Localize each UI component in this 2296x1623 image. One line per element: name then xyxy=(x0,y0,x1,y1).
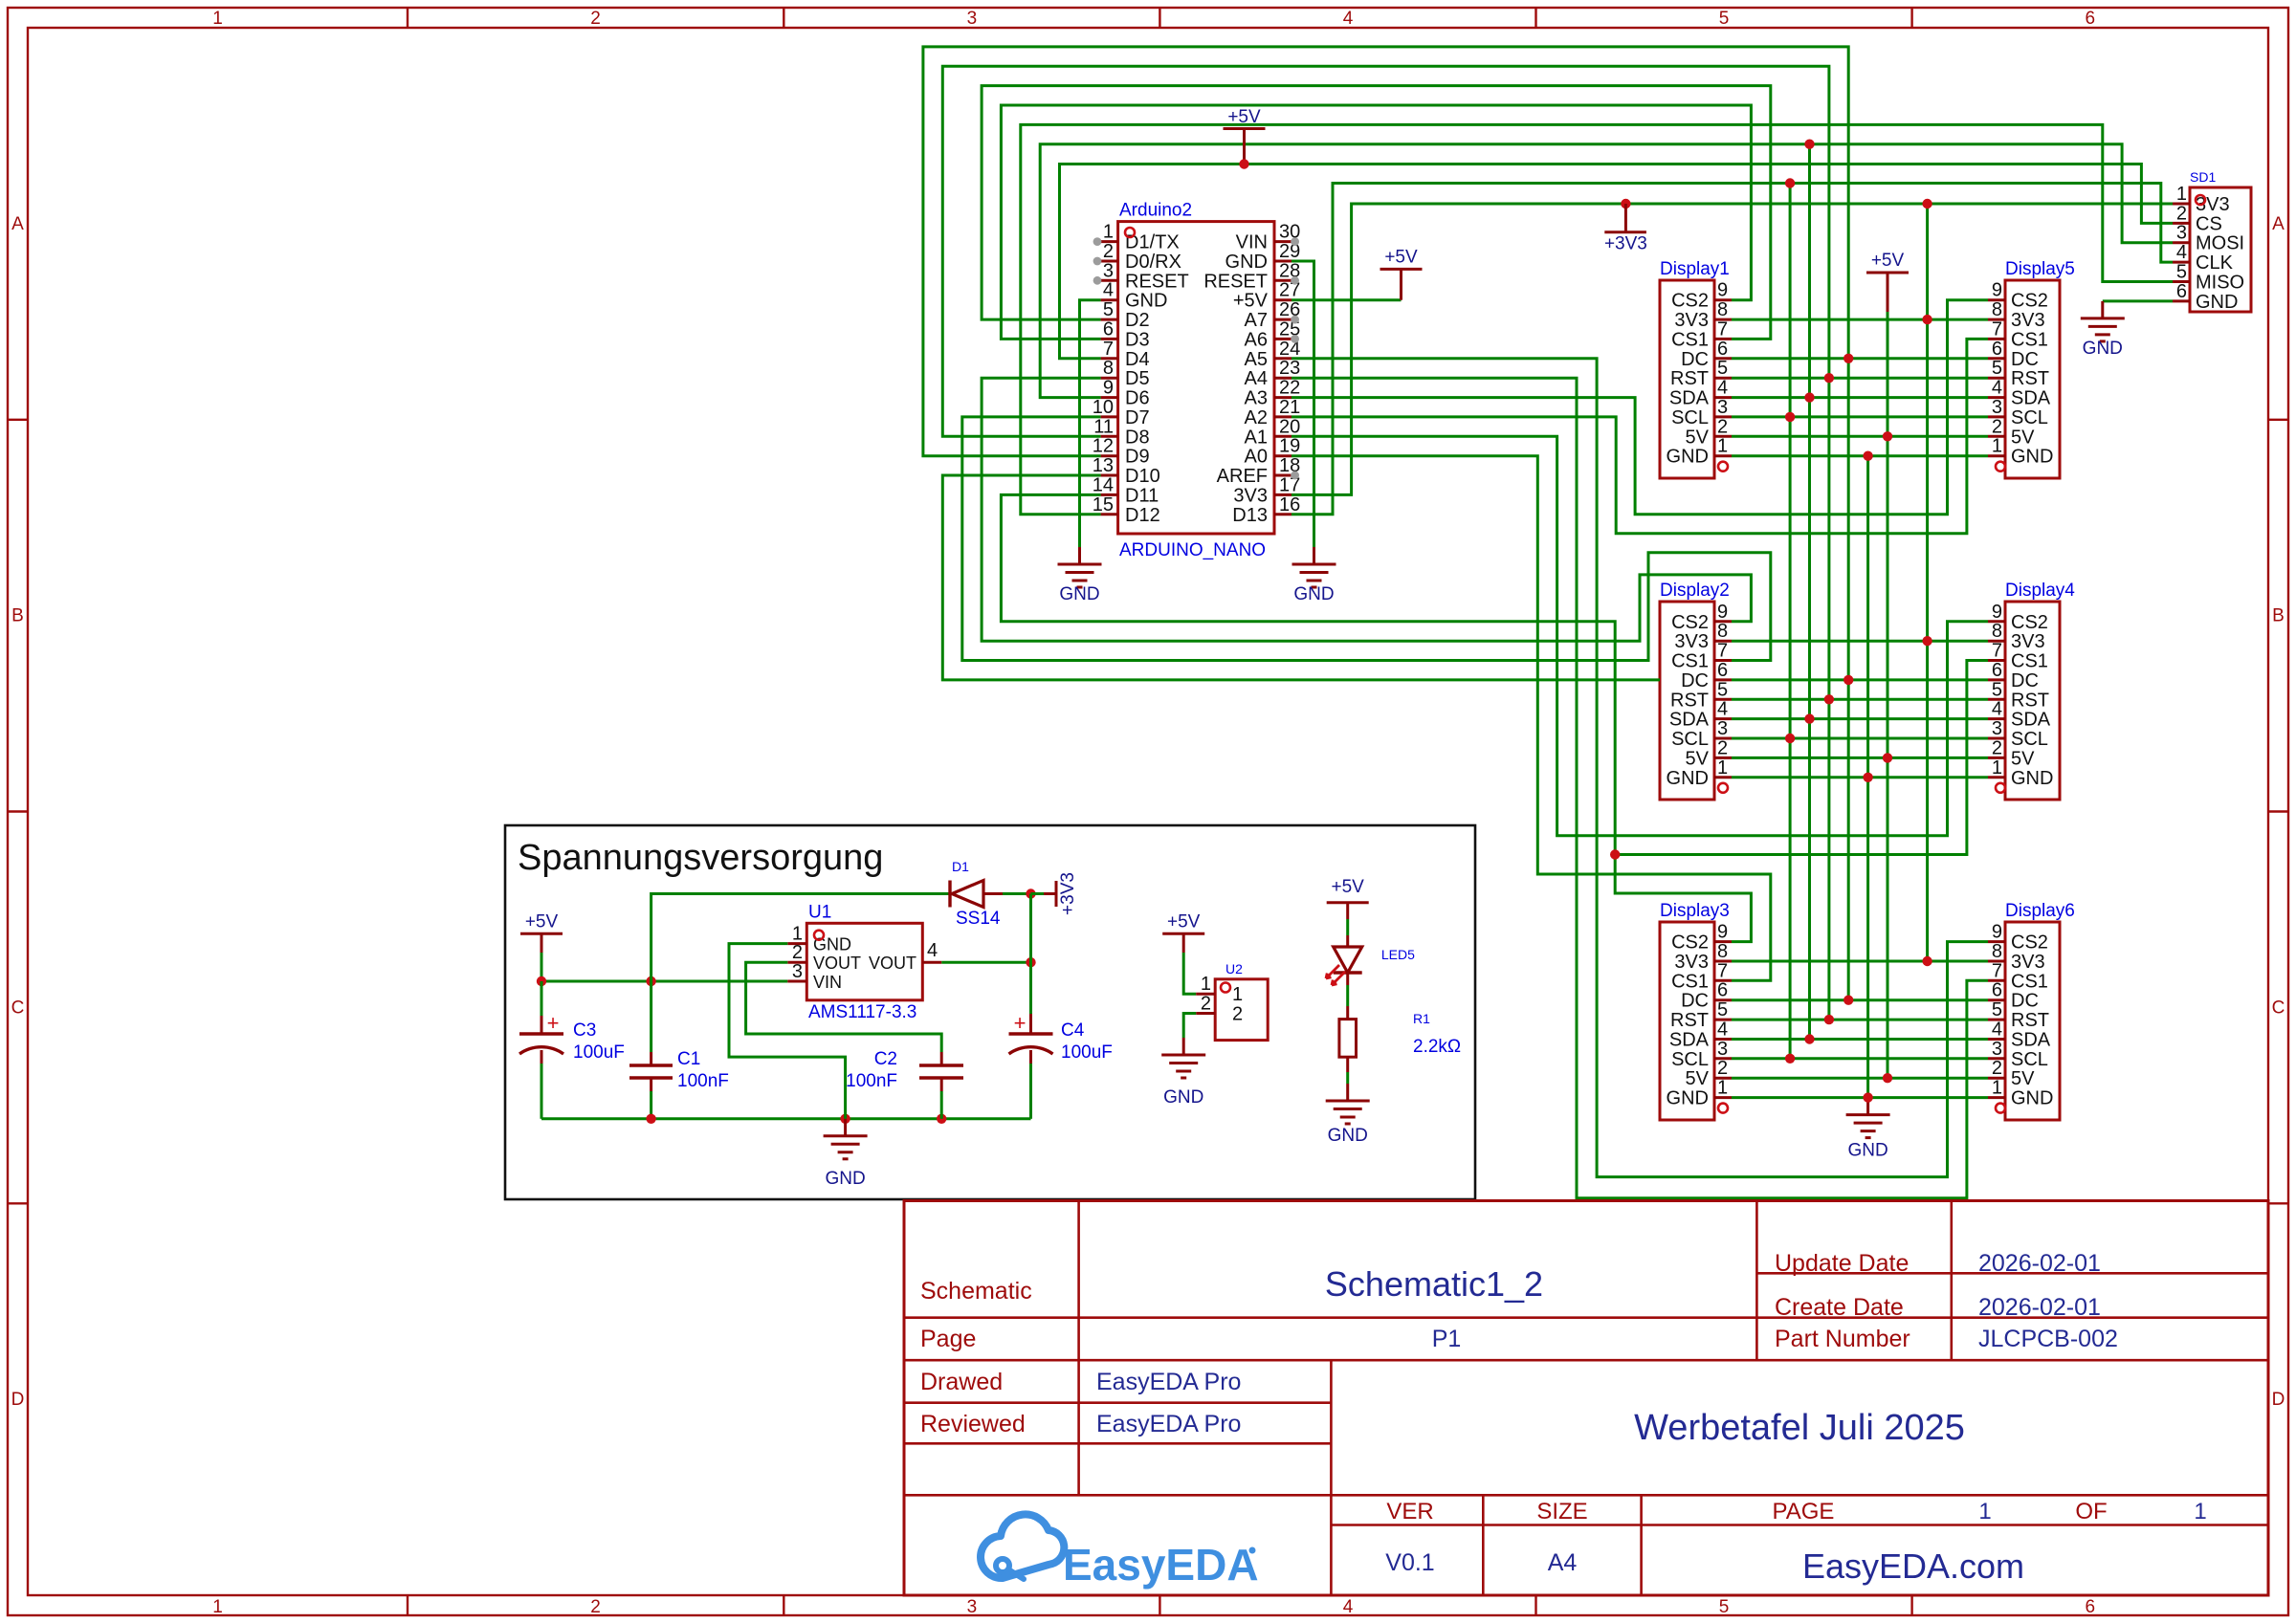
svg-text:Schematic: Schematic xyxy=(920,1278,1032,1305)
svg-text:Display3: Display3 xyxy=(1660,901,1730,921)
junction SDA bus tap xyxy=(1804,140,1814,149)
connector Display4 xyxy=(1988,581,2075,800)
svg-text:6: 6 xyxy=(1717,980,1728,1001)
svg-text:DC: DC xyxy=(1681,670,1709,691)
wire GND pin4 xyxy=(1080,300,1101,547)
svg-text:SS14: SS14 xyxy=(956,909,1001,929)
svg-text:V0.1: V0.1 xyxy=(1385,1549,1434,1576)
unconnected marker Display3 xyxy=(1718,1104,1728,1113)
junction 3V3 bus xyxy=(1922,956,1932,966)
svg-text:GND: GND xyxy=(1328,1126,1368,1146)
svg-text:C: C xyxy=(11,998,25,1018)
svg-text:+5V: +5V xyxy=(1233,291,1269,312)
svg-text:D11: D11 xyxy=(1125,485,1159,506)
unconnected marker Display6 xyxy=(1996,1104,2005,1113)
svg-text:RST: RST xyxy=(1670,1010,1709,1031)
junction GND bus xyxy=(1863,1092,1872,1102)
wire D3 net (L4 to Display1 CS2) xyxy=(1001,105,1751,339)
svg-text:D7: D7 xyxy=(1125,407,1150,428)
svg-text:VIN: VIN xyxy=(1236,232,1268,253)
svg-text:6: 6 xyxy=(2086,9,2096,29)
svg-text:VOUT: VOUT xyxy=(869,954,916,973)
wire SCL bus row Display1-Display5 xyxy=(1732,415,1988,418)
svg-text:7: 7 xyxy=(1717,641,1728,662)
svg-text:5V: 5V xyxy=(1686,1068,1710,1089)
svg-text:U1: U1 xyxy=(808,902,831,922)
svg-text:D10: D10 xyxy=(1125,466,1160,487)
svg-text:6: 6 xyxy=(2176,281,2187,302)
svg-text:4: 4 xyxy=(1343,9,1354,29)
svg-text:CS2: CS2 xyxy=(2011,612,2048,633)
svg-text:+5V: +5V xyxy=(525,911,559,932)
svg-text:8: 8 xyxy=(1717,299,1728,320)
svg-text:3V3: 3V3 xyxy=(1674,952,1709,973)
wire GND bus row Display3-Display6 xyxy=(1732,1096,1988,1099)
svg-text:1: 1 xyxy=(1103,222,1114,243)
wire 5V bus vertical xyxy=(1887,312,1889,1078)
svg-text:RESET: RESET xyxy=(1125,271,1189,292)
svg-text:GND: GND xyxy=(1847,1141,1888,1161)
svg-text:1: 1 xyxy=(212,9,223,29)
wire D7 net to Display2 CS1 xyxy=(962,417,1771,661)
wire 3V3 bus row Display2-Display4 xyxy=(1732,640,1988,643)
svg-text:GND: GND xyxy=(2011,447,2053,468)
svg-text:8: 8 xyxy=(1992,941,2002,962)
svg-text:1: 1 xyxy=(1717,757,1728,779)
svg-text:5V: 5V xyxy=(2011,1068,2035,1089)
svg-text:16: 16 xyxy=(1279,494,1300,515)
svg-text:5: 5 xyxy=(1717,999,1728,1020)
svg-text:6: 6 xyxy=(2086,1597,2096,1617)
svg-text:Create Date: Create Date xyxy=(1775,1294,1904,1321)
svg-text:100uF: 100uF xyxy=(1061,1042,1113,1063)
junction 5V bus xyxy=(1883,753,1892,762)
svg-text:CS2: CS2 xyxy=(1671,291,1709,312)
svg-text:23: 23 xyxy=(1279,358,1300,379)
svg-text:CS: CS xyxy=(2196,213,2222,234)
connector Display3 xyxy=(1660,901,1732,1120)
logo EasyEDA xyxy=(981,1514,1259,1590)
svg-text:1: 1 xyxy=(1992,757,2002,779)
wire RST bus row Display3-Display6 xyxy=(1732,1019,1988,1021)
svg-text:SDA: SDA xyxy=(2011,710,2051,731)
wire C3 leg xyxy=(541,981,543,1016)
svg-text:GND: GND xyxy=(2011,1088,2053,1109)
svg-text:8: 8 xyxy=(1717,621,1728,642)
svg-text:C1: C1 xyxy=(677,1049,700,1069)
wire R1 to ground xyxy=(1346,1057,1349,1072)
wire U1 GND to rail xyxy=(729,944,846,1119)
svg-text:GND: GND xyxy=(1125,291,1167,312)
svg-text:RST: RST xyxy=(2011,368,2049,389)
wire D10 net along DC row xyxy=(942,475,1660,680)
svg-text:CS2: CS2 xyxy=(1671,612,1709,633)
svg-text:Display4: Display4 xyxy=(2005,581,2075,601)
svg-text:Reviewed: Reviewed xyxy=(920,1411,1026,1437)
svg-text:4: 4 xyxy=(1992,699,2002,720)
svg-text:Schematic1_2: Schematic1_2 xyxy=(1325,1264,1543,1304)
wire 5V bus row Display1-Display5 xyxy=(1732,435,1988,438)
svg-text:3: 3 xyxy=(1992,397,2002,418)
svg-text:C: C xyxy=(2272,998,2285,1018)
svg-text:2026-02-01: 2026-02-01 xyxy=(1978,1250,2101,1277)
wire 3V3 bus row Display1-Display5 xyxy=(1732,318,1988,321)
connector SD1 xyxy=(2173,169,2251,313)
wire GND bus row Display1-Display5 xyxy=(1732,454,1988,457)
svg-text:MOSI: MOSI xyxy=(2196,233,2244,254)
svg-text:3: 3 xyxy=(967,1597,978,1617)
ground symbol R1 xyxy=(1346,1084,1349,1101)
svg-text:1: 1 xyxy=(2194,1499,2206,1524)
svg-text:DC: DC xyxy=(2011,670,2039,691)
svg-text:SCL: SCL xyxy=(1671,1049,1709,1070)
wire A1 net to Display4 CS2 xyxy=(1291,436,1988,835)
capacitor C4 xyxy=(1009,1011,1113,1119)
svg-text:2: 2 xyxy=(1992,416,2002,437)
junction GND bus xyxy=(1863,451,1872,461)
svg-text:3: 3 xyxy=(1992,1039,2002,1060)
wire A4 net to Display6 CS1 xyxy=(1291,378,1988,1198)
svg-text:3V3: 3V3 xyxy=(2011,631,2045,652)
wire +5V rail to U1 VIN xyxy=(541,980,787,983)
svg-text:C4: C4 xyxy=(1061,1020,1085,1041)
svg-text:D: D xyxy=(11,1390,25,1410)
svg-text:3V3: 3V3 xyxy=(1674,631,1709,652)
svg-text:4: 4 xyxy=(1103,280,1114,301)
svg-text:GND: GND xyxy=(1059,584,1099,604)
svg-text:3V3: 3V3 xyxy=(2011,952,2045,973)
svg-text:1: 1 xyxy=(1201,974,1211,995)
junction 5V bus xyxy=(1883,1073,1892,1083)
svg-text:Display5: Display5 xyxy=(2005,259,2075,279)
svg-text:5: 5 xyxy=(1717,679,1728,700)
svg-text:14: 14 xyxy=(1093,474,1114,495)
wire D8 net (L2 to RST bus) xyxy=(942,66,1829,1020)
svg-text:12: 12 xyxy=(1093,436,1114,457)
wire A0 net to Display3 CS1 xyxy=(1291,456,1771,981)
wire GND bus row Display2-Display4 xyxy=(1732,776,1988,779)
wire LED to R1 xyxy=(1346,973,1349,985)
svg-text:CS1: CS1 xyxy=(2011,971,2048,992)
wire GND pin29 xyxy=(1291,261,1314,547)
wire top loop to D1 xyxy=(651,894,950,982)
wire A2 net to Display5 CS1 xyxy=(1291,339,1988,533)
svg-text:A4: A4 xyxy=(1245,368,1268,389)
svg-text:CS1: CS1 xyxy=(1671,651,1709,672)
junction VOUT/C4 column xyxy=(1026,957,1035,967)
svg-text:DC: DC xyxy=(1681,349,1709,370)
wire VOUT node down to C4 xyxy=(1029,894,1032,1015)
svg-text:D2: D2 xyxy=(1125,310,1150,331)
ground symbol power rail xyxy=(844,1119,847,1136)
svg-text:4: 4 xyxy=(1717,699,1728,720)
svg-text:SDA: SDA xyxy=(2011,388,2051,409)
svg-text:D4: D4 xyxy=(1125,349,1150,370)
junction SCL bus xyxy=(1785,1054,1795,1064)
svg-text:SD1: SD1 xyxy=(2190,169,2216,185)
svg-text:Arduino2: Arduino2 xyxy=(1119,201,1192,221)
svg-text:RST: RST xyxy=(1670,368,1709,389)
svg-text:CS2: CS2 xyxy=(2011,932,2048,954)
svg-text:1: 1 xyxy=(2176,184,2187,205)
svg-text:CS2: CS2 xyxy=(1671,932,1709,954)
svg-text:EasyEDA Pro: EasyEDA Pro xyxy=(1096,1369,1241,1395)
wire D11 net to Display4 CS1 xyxy=(1001,494,1988,854)
svg-text:6: 6 xyxy=(1992,980,2002,1001)
svg-text:2: 2 xyxy=(1201,994,1211,1015)
svg-text:VIN: VIN xyxy=(813,973,842,992)
svg-text:20: 20 xyxy=(1279,416,1300,437)
wire SDA bus row Display1-Display5 xyxy=(1732,396,1988,399)
power flag +3V3 rotated xyxy=(1031,892,1045,895)
junction D11 branch xyxy=(1610,849,1620,859)
junction SCL bus tap xyxy=(1785,178,1795,187)
svg-text:RESET: RESET xyxy=(1203,271,1268,292)
svg-text:D9: D9 xyxy=(1125,447,1150,468)
svg-text:9: 9 xyxy=(1717,922,1728,943)
svg-text:SCL: SCL xyxy=(1671,407,1709,428)
svg-text:+3V3: +3V3 xyxy=(1058,872,1078,915)
junction GND rail C2 xyxy=(937,1114,946,1124)
svg-text:3: 3 xyxy=(792,961,803,982)
svg-text:2.2kΩ: 2.2kΩ xyxy=(1413,1037,1461,1057)
svg-text:100uF: 100uF xyxy=(573,1042,625,1063)
svg-text:OF: OF xyxy=(2075,1499,2107,1524)
svg-text:A0: A0 xyxy=(1245,447,1268,468)
wire DC bus row Display3-Display6 xyxy=(1732,998,1988,1001)
svg-text:2: 2 xyxy=(590,1597,601,1617)
svg-text:7: 7 xyxy=(1103,339,1114,360)
svg-text:100nF: 100nF xyxy=(846,1071,897,1091)
svg-text:5V: 5V xyxy=(2011,427,2035,448)
svg-text:EasyEDA.com: EasyEDA.com xyxy=(1802,1546,2024,1586)
wire U1 VOUT pin4 xyxy=(941,961,1030,964)
connector U2 xyxy=(1196,961,1268,1041)
svg-text:5V: 5V xyxy=(1686,748,1710,769)
svg-text:5: 5 xyxy=(1719,1597,1730,1617)
svg-text:8: 8 xyxy=(1992,299,2002,320)
svg-text:SCL: SCL xyxy=(2011,729,2048,750)
unconnected marker SD1 xyxy=(2196,195,2205,205)
wire D5 net to Display2 CS2 xyxy=(982,378,1751,641)
voltage regulator U1 (AMS1117-3.3) xyxy=(787,902,941,1022)
svg-text:CS1: CS1 xyxy=(1671,329,1709,350)
svg-text:3: 3 xyxy=(1717,718,1728,739)
svg-text:GND: GND xyxy=(1225,252,1268,273)
svg-text:2: 2 xyxy=(1717,1058,1728,1079)
wire D6 net (L6 to SD1 MOSI) xyxy=(1040,144,2173,398)
wire SDA bus row Display2-Display4 xyxy=(1732,717,1988,720)
svg-text:19: 19 xyxy=(1279,436,1300,457)
connector Display6 xyxy=(1988,901,2075,1120)
wire DC bus row Display1-Display5 xyxy=(1732,357,1988,360)
svg-text:SDA: SDA xyxy=(1669,710,1710,731)
junction SDA bus xyxy=(1804,713,1814,723)
junction 3V3 bus xyxy=(1922,315,1932,324)
wire D9 net (L1 to DC bus) xyxy=(923,47,1848,1000)
wire 3V3 net (Arduino pin17 to SD1 pin1) xyxy=(1291,204,2173,494)
svg-text:SCL: SCL xyxy=(2011,407,2048,428)
svg-text:D13: D13 xyxy=(1232,505,1268,526)
wire U1 VOUT to C2 xyxy=(746,962,942,1052)
svg-text:22: 22 xyxy=(1279,378,1300,399)
svg-text:5: 5 xyxy=(1717,358,1728,379)
svg-text:Update Date: Update Date xyxy=(1775,1250,1909,1277)
svg-text:U2: U2 xyxy=(1225,961,1243,976)
svg-text:B: B xyxy=(11,606,24,626)
wire GND rail xyxy=(541,1117,1031,1120)
svg-text:Display1: Display1 xyxy=(1660,259,1730,279)
wire +5V to U2 pin1 xyxy=(1183,953,1196,994)
svg-text:A3: A3 xyxy=(1245,388,1268,409)
svg-text:DC: DC xyxy=(1681,991,1709,1012)
svg-text:5: 5 xyxy=(1992,679,2002,700)
svg-text:GND: GND xyxy=(1667,447,1709,468)
junction D1 output node xyxy=(1026,888,1035,898)
svg-text:RST: RST xyxy=(2011,690,2049,711)
wire D12 net (L5 to SD1 MISO) xyxy=(1021,124,2173,514)
junction RST bus xyxy=(1824,1015,1834,1024)
svg-text:GND: GND xyxy=(1667,768,1709,789)
svg-text:6: 6 xyxy=(1717,339,1728,360)
ground symbol for SD1 xyxy=(2101,301,2104,318)
IC Arduino2 (ARDUINO_NANO) xyxy=(1093,201,1301,560)
svg-text:5: 5 xyxy=(1992,358,2002,379)
unconnected marker Display5 xyxy=(1996,462,2005,472)
svg-text:+5V: +5V xyxy=(1332,877,1365,897)
svg-text:Part Number: Part Number xyxy=(1775,1326,1910,1352)
svg-text:1: 1 xyxy=(1232,984,1243,1005)
svg-text:ARDUINO_NANO: ARDUINO_NANO xyxy=(1119,540,1266,560)
svg-text:SDA: SDA xyxy=(1669,1030,1710,1051)
unconnected marker Display2 xyxy=(1718,783,1728,793)
diode D1 (SS14) xyxy=(950,859,1031,929)
wire SDA bus vertical xyxy=(1808,144,1811,1040)
svg-text:4: 4 xyxy=(1343,1597,1354,1617)
connector Display1 xyxy=(1660,259,1732,478)
wire +5V pin27 xyxy=(1291,298,1402,301)
svg-text:6: 6 xyxy=(1992,339,2002,360)
svg-text:2: 2 xyxy=(1232,1004,1243,1025)
svg-text:5V: 5V xyxy=(2011,748,2035,769)
svg-text:5: 5 xyxy=(1719,9,1730,29)
svg-text:GND: GND xyxy=(825,1169,865,1189)
wire DC bus row Display2-Display4 xyxy=(1732,678,1988,681)
wire SCL bus row Display2-Display4 xyxy=(1732,737,1988,740)
svg-text:7: 7 xyxy=(1717,960,1728,981)
svg-text:GND: GND xyxy=(2196,292,2238,313)
svg-text:CS1: CS1 xyxy=(2011,329,2048,350)
svg-text:1: 1 xyxy=(1717,436,1728,457)
svg-text:C3: C3 xyxy=(573,1020,596,1041)
wire 5V bus row Display3-Display6 xyxy=(1732,1077,1988,1080)
svg-text:11: 11 xyxy=(1093,416,1114,437)
wire RST bus row Display2-Display4 xyxy=(1732,698,1988,701)
svg-text:9: 9 xyxy=(1717,602,1728,623)
svg-text:21: 21 xyxy=(1279,397,1300,418)
svg-text:+3V3: +3V3 xyxy=(1604,234,1647,254)
svg-text:1: 1 xyxy=(1992,1078,2002,1099)
svg-text:8: 8 xyxy=(1992,621,2002,642)
svg-text:A: A xyxy=(2272,214,2285,234)
svg-text:3: 3 xyxy=(1103,260,1114,281)
wire SCL bus row Display3-Display6 xyxy=(1732,1057,1988,1060)
title block xyxy=(904,1201,2268,1596)
svg-text:LED5: LED5 xyxy=(1381,947,1415,962)
wire D13 net to SD1 CLK xyxy=(1291,184,2173,515)
svg-text:GND: GND xyxy=(813,935,851,954)
junction 3V3 at SD feed xyxy=(1922,199,1932,208)
junction 3V3 bus xyxy=(1922,636,1932,646)
junction GND rail earth xyxy=(840,1114,850,1124)
svg-text:Display6: Display6 xyxy=(2005,901,2075,921)
wire 3V3 bus vertical xyxy=(1926,204,1929,961)
svg-text:3: 3 xyxy=(2176,223,2187,244)
svg-text:5: 5 xyxy=(2176,262,2187,283)
svg-text:6: 6 xyxy=(1992,660,2002,681)
svg-text:Drawed: Drawed xyxy=(920,1369,1003,1395)
svg-text:3: 3 xyxy=(1717,397,1728,418)
svg-text:3: 3 xyxy=(1992,718,2002,739)
power flag +3V3 on 3V3 net xyxy=(1621,199,1630,208)
svg-text:D12: D12 xyxy=(1125,505,1160,526)
svg-text:RST: RST xyxy=(1670,690,1709,711)
junction +5V rail C1 xyxy=(646,976,655,986)
svg-text:3: 3 xyxy=(967,9,978,29)
wire D2 net (L3 to Display1 CS1) xyxy=(982,86,1771,340)
junction DC bus xyxy=(1843,354,1853,363)
svg-text:5: 5 xyxy=(1992,999,2002,1020)
svg-text:1: 1 xyxy=(1992,436,2002,457)
svg-text:R1: R1 xyxy=(1413,1011,1430,1026)
svg-text:SIZE: SIZE xyxy=(1536,1499,1587,1524)
resistor R1 xyxy=(1339,1011,1461,1057)
capacitor C1 xyxy=(629,1049,729,1119)
svg-text:+5V: +5V xyxy=(1871,251,1905,271)
wire GND bus vertical xyxy=(1866,456,1869,1098)
svg-text:9: 9 xyxy=(1992,922,2002,943)
svg-text:GND: GND xyxy=(2011,768,2053,789)
capacitor C2 xyxy=(846,1049,963,1119)
capacitor C3 xyxy=(519,1011,625,1119)
wire RST bus row Display1-Display5 xyxy=(1732,377,1988,380)
wire 5V bus row Display2-Display4 xyxy=(1732,757,1988,759)
svg-text:+: + xyxy=(1014,1011,1027,1035)
svg-text:+5V: +5V xyxy=(1384,247,1418,267)
junction GND bus xyxy=(1863,773,1872,782)
svg-text:B: B xyxy=(2272,606,2285,626)
svg-text:SDA: SDA xyxy=(2011,1030,2051,1051)
svg-text:2: 2 xyxy=(590,9,601,29)
unconnected marker Display1 xyxy=(1718,462,1728,472)
wire SCL bus vertical xyxy=(1789,184,1792,1059)
ground symbol under Arduino left xyxy=(1078,547,1081,564)
svg-text:2026-02-01: 2026-02-01 xyxy=(1978,1294,2101,1321)
LED LED5 xyxy=(1326,947,1415,985)
svg-text:CLK: CLK xyxy=(2196,252,2234,274)
svg-text:PAGE: PAGE xyxy=(1773,1499,1835,1524)
svg-text:8: 8 xyxy=(1103,358,1114,379)
wire D11 branch to Display3 CS2 xyxy=(1615,855,1751,942)
svg-text:Werbetafel Juli 2025: Werbetafel Juli 2025 xyxy=(1634,1408,1965,1448)
svg-text:VOUT: VOUT xyxy=(813,954,861,973)
svg-text:9: 9 xyxy=(1992,280,2002,301)
wire U2 pin2 to ground xyxy=(1183,1014,1196,1039)
svg-text:DC: DC xyxy=(2011,349,2039,370)
svg-text:9: 9 xyxy=(1103,378,1114,399)
svg-text:Spannungsversorgung: Spannungsversorgung xyxy=(518,838,883,878)
svg-text:D5: D5 xyxy=(1125,368,1150,389)
